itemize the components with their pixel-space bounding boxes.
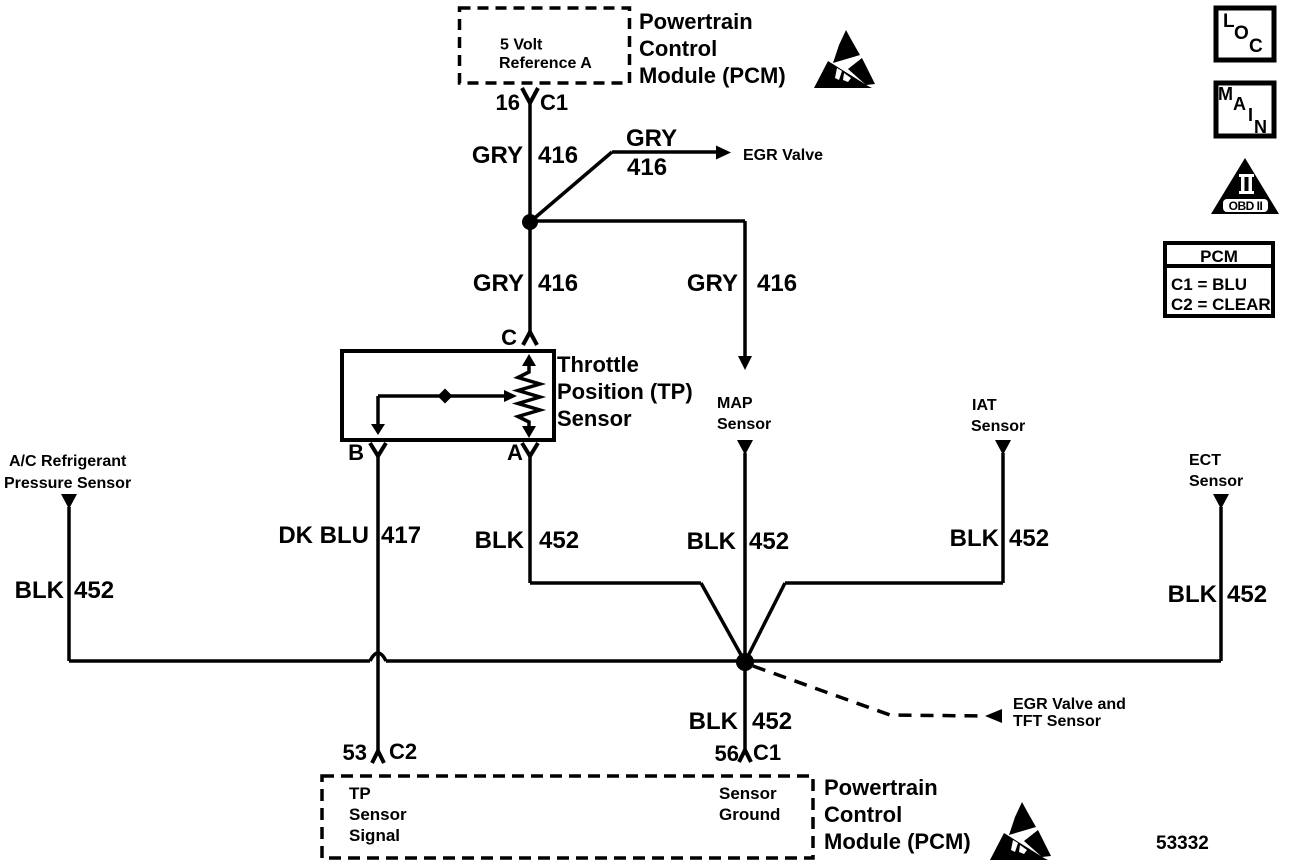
svg-text:EGR Valve and: EGR Valve and: [1013, 696, 1126, 713]
svg-text:O: O: [1234, 23, 1249, 44]
svg-text:452: 452: [74, 577, 114, 604]
svg-text:PCM: PCM: [1200, 247, 1238, 266]
svg-text:53: 53: [343, 740, 367, 765]
svg-text:A: A: [507, 440, 523, 465]
svg-text:Sensor: Sensor: [971, 418, 1025, 435]
svg-text:BLK: BLK: [1168, 581, 1218, 608]
svg-text:452: 452: [539, 527, 579, 554]
svg-text:ECT: ECT: [1189, 452, 1221, 469]
svg-text:5 Volt: 5 Volt: [500, 37, 543, 54]
svg-text:OBD II: OBD II: [1229, 199, 1263, 213]
svg-text:Position (TP): Position (TP): [557, 379, 693, 404]
svg-text:I: I: [1248, 105, 1253, 125]
svg-text:Sensor: Sensor: [1189, 473, 1243, 490]
svg-text:BLK: BLK: [687, 528, 737, 555]
svg-text:Ground: Ground: [719, 805, 780, 824]
svg-text:452: 452: [1227, 581, 1267, 608]
svg-text:BLK: BLK: [475, 527, 525, 554]
svg-text:Control: Control: [824, 802, 902, 827]
svg-text:GRY: GRY: [472, 142, 523, 169]
svg-text:416: 416: [538, 270, 578, 297]
svg-text:Signal: Signal: [349, 826, 400, 845]
svg-text:Module (PCM): Module (PCM): [824, 829, 971, 854]
svg-text:C1: C1: [753, 740, 781, 765]
svg-text:Sensor: Sensor: [719, 784, 777, 803]
svg-text:16: 16: [496, 90, 520, 115]
svg-text:C: C: [1249, 36, 1263, 57]
svg-text:416: 416: [757, 270, 797, 297]
svg-text:452: 452: [1009, 525, 1049, 552]
svg-text:53332: 53332: [1156, 833, 1209, 854]
svg-text:C1: C1: [540, 90, 568, 115]
svg-text:56: 56: [715, 741, 739, 766]
svg-text:416: 416: [538, 142, 578, 169]
svg-text:MAP: MAP: [717, 395, 753, 412]
svg-text:C2 = CLEAR: C2 = CLEAR: [1171, 295, 1271, 314]
svg-text:Powertrain: Powertrain: [824, 775, 938, 800]
svg-text:C: C: [501, 325, 517, 350]
svg-text:TP: TP: [349, 784, 371, 803]
svg-text:M: M: [1218, 84, 1233, 104]
svg-text:GRY: GRY: [626, 125, 677, 152]
svg-text:BLK: BLK: [689, 708, 739, 735]
svg-text:Sensor: Sensor: [349, 805, 407, 824]
svg-text:BLK: BLK: [950, 525, 1000, 552]
svg-text:DK BLU: DK BLU: [278, 522, 369, 549]
svg-text:Control: Control: [639, 36, 717, 61]
svg-text:IAT: IAT: [972, 397, 997, 414]
svg-text:Sensor: Sensor: [717, 416, 771, 433]
svg-text:417: 417: [381, 522, 421, 549]
svg-text:A/C Refrigerant: A/C Refrigerant: [9, 453, 127, 470]
svg-text:EGR Valve: EGR Valve: [743, 147, 823, 164]
svg-text:452: 452: [752, 708, 792, 735]
svg-text:A: A: [1233, 94, 1246, 114]
svg-text:GRY: GRY: [687, 270, 738, 297]
svg-text:N: N: [1254, 117, 1267, 137]
svg-text:Sensor: Sensor: [557, 406, 632, 431]
svg-text:Throttle: Throttle: [557, 352, 639, 377]
svg-text:C1 = BLU: C1 = BLU: [1171, 275, 1247, 294]
svg-text:452: 452: [749, 528, 789, 555]
svg-text:416: 416: [627, 154, 667, 181]
svg-text:Module (PCM): Module (PCM): [639, 63, 786, 88]
svg-text:Pressure Sensor: Pressure Sensor: [4, 475, 131, 492]
svg-text:C2: C2: [389, 739, 417, 764]
svg-text:GRY: GRY: [473, 270, 524, 297]
svg-text:BLK: BLK: [15, 577, 65, 604]
svg-text:Reference A: Reference A: [499, 55, 592, 72]
svg-text:TFT Sensor: TFT Sensor: [1013, 713, 1101, 730]
svg-text:Powertrain: Powertrain: [639, 9, 753, 34]
svg-text:B: B: [348, 440, 364, 465]
